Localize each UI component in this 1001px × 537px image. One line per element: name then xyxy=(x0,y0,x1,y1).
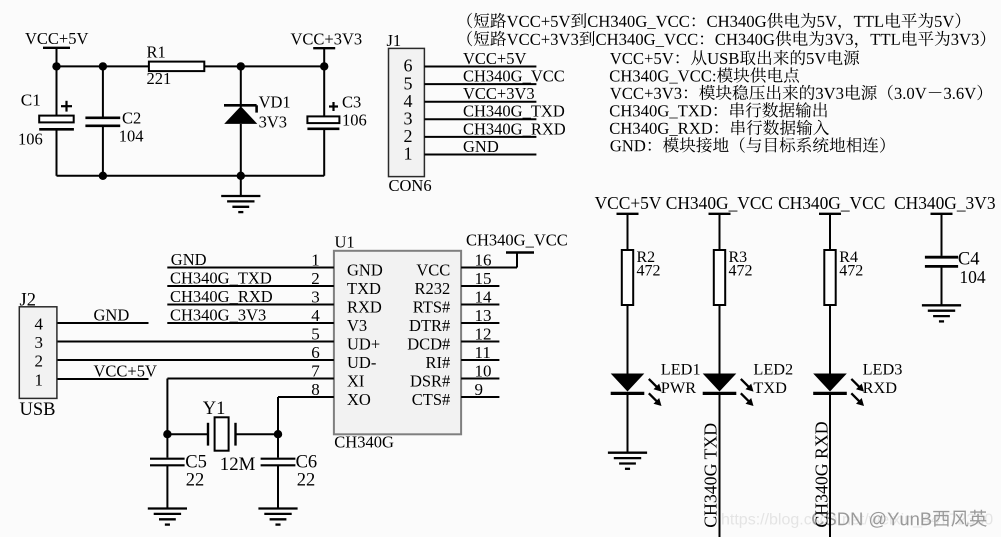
ground LED1 xyxy=(627,395,629,453)
svg-text:13: 13 xyxy=(475,306,492,325)
svg-text:CH340G: CH340G xyxy=(334,433,394,452)
U1 pin 2 TXD wire xyxy=(167,285,334,287)
U1 pin 9 CTS# wire xyxy=(461,396,499,398)
svg-text:TXD: TXD xyxy=(347,279,381,298)
svg-text:TXD: TXD xyxy=(753,378,787,397)
annotation line 4 xyxy=(610,67,799,83)
svg-text:22: 22 xyxy=(186,471,205,491)
svg-text:14: 14 xyxy=(475,287,493,306)
svg-text:4: 4 xyxy=(311,306,320,325)
annotation line 5 xyxy=(610,85,982,101)
svg-text:RTS#: RTS# xyxy=(413,297,451,316)
svg-text:12: 12 xyxy=(475,324,492,343)
svg-text:3V3: 3V3 xyxy=(259,112,287,131)
svg-text:22: 22 xyxy=(297,471,316,491)
wire R4 to LED3 xyxy=(829,305,831,374)
U1 pin 6 UD- wire xyxy=(58,359,334,361)
svg-text:12M: 12M xyxy=(220,454,256,475)
svg-text:XI: XI xyxy=(347,371,364,390)
svg-text:DTR#: DTR# xyxy=(409,316,450,335)
power symbol VCC+5V xyxy=(43,47,70,49)
svg-text:3: 3 xyxy=(35,333,44,352)
svg-text:LED3: LED3 xyxy=(863,359,903,378)
power symbol VCC+3V3 xyxy=(313,47,335,49)
svg-text:VCC+5V: VCC+5V xyxy=(463,49,526,68)
node junction dots bottom rail xyxy=(99,172,107,180)
power symbol (LED3 column) xyxy=(819,213,841,215)
wire XI down xyxy=(166,379,168,435)
svg-text:15: 15 xyxy=(475,269,492,288)
svg-text:VCC+3V3: VCC+3V3 xyxy=(463,84,535,103)
svg-text:R1: R1 xyxy=(147,43,166,62)
svg-text:6: 6 xyxy=(311,343,320,362)
svg-text:3: 3 xyxy=(311,288,320,307)
svg-text:CH340G_TXD: CH340G_TXD xyxy=(170,268,272,287)
svg-text:CH340G_RXD: CH340G_RXD xyxy=(170,287,273,306)
svg-text:106: 106 xyxy=(18,130,43,149)
ground C5 xyxy=(166,465,168,508)
U1 pin 10 DSR# wire xyxy=(461,378,499,380)
svg-text:PWR: PWR xyxy=(661,378,696,397)
svg-text:104: 104 xyxy=(119,127,144,146)
svg-text:RXD: RXD xyxy=(863,378,898,397)
U1 pin 7 XI wire xyxy=(167,378,334,380)
svg-text:CH340G_VCC: CH340G_VCC xyxy=(666,193,773,213)
LED LED2 TXD xyxy=(703,374,737,392)
svg-text:1: 1 xyxy=(311,251,320,270)
ground C4 xyxy=(941,266,943,305)
svg-text:VCC+5V: VCC+5V xyxy=(94,361,157,380)
svg-text:VD1: VD1 xyxy=(259,93,291,112)
U1 pin 1 GND wire xyxy=(167,267,334,269)
capacitor C5 xyxy=(166,434,168,457)
svg-text:CTS#: CTS# xyxy=(412,390,451,409)
capacitor C2 xyxy=(102,66,104,117)
resistor R3 472 xyxy=(714,250,725,305)
svg-text:U1: U1 xyxy=(335,232,355,251)
svg-text:472: 472 xyxy=(839,262,863,279)
wire LED3 down CH340G_RXD xyxy=(829,395,831,537)
svg-text:472: 472 xyxy=(637,262,661,279)
svg-text:R232: R232 xyxy=(415,279,451,298)
wire bottom rail xyxy=(57,175,325,177)
node junction XO/C6 xyxy=(274,430,282,438)
svg-text:DSR#: DSR# xyxy=(410,371,450,390)
annotation line 3 xyxy=(610,50,859,65)
svg-text:LED1: LED1 xyxy=(661,359,701,378)
annotation line 6 xyxy=(610,102,827,118)
U1 pin 4 V3 wire xyxy=(167,322,334,324)
node junction dots top rail xyxy=(52,62,60,70)
power symbol (LED2 column) xyxy=(709,213,731,215)
svg-text:USB: USB xyxy=(20,400,56,420)
svg-text:UD-: UD- xyxy=(347,353,376,372)
svg-text:CH340G_RXD: CH340G_RXD xyxy=(463,119,566,138)
svg-text:C3: C3 xyxy=(342,93,361,112)
U1 pin 11 RI# wire xyxy=(461,359,499,361)
svg-text:11: 11 xyxy=(475,343,491,362)
svg-text:5: 5 xyxy=(311,325,320,344)
svg-text:16: 16 xyxy=(475,250,492,269)
svg-text:2: 2 xyxy=(311,269,320,288)
svg-text:GND: GND xyxy=(463,137,499,156)
ground C6 xyxy=(277,465,279,508)
svg-text:1: 1 xyxy=(404,144,413,164)
svg-text:UD+: UD+ xyxy=(347,334,380,353)
J2 pin4 GND wire xyxy=(58,322,149,324)
capacitor C4 104 xyxy=(925,256,958,259)
wire R3 to LED2 xyxy=(719,305,721,374)
svg-text:CH340G_VCC: CH340G_VCC xyxy=(466,231,568,250)
resistor R2 472 xyxy=(622,250,633,305)
svg-text:CON6: CON6 xyxy=(389,176,432,195)
svg-text:CH340G_3V3: CH340G_3V3 xyxy=(894,193,996,213)
zener diode VD1 3V3 xyxy=(240,66,242,107)
svg-text:9: 9 xyxy=(475,380,484,399)
svg-text:10: 10 xyxy=(475,361,492,380)
svg-text:2: 2 xyxy=(35,352,44,371)
wire top rail right xyxy=(204,65,324,67)
U1 pin 8 XO wire xyxy=(278,396,334,398)
power symbol CH340G_VCC at U1 pin16 xyxy=(516,253,518,268)
annotation line 2 xyxy=(467,31,985,48)
power symbol (LED1 column) xyxy=(617,213,639,215)
svg-text:GND: GND xyxy=(171,250,207,269)
annotation line 1 xyxy=(467,13,960,30)
svg-text:GND: GND xyxy=(94,305,130,324)
svg-text:RXD: RXD xyxy=(347,297,382,316)
svg-text:7: 7 xyxy=(311,362,320,381)
capacitor C3 xyxy=(323,66,325,116)
svg-text:1: 1 xyxy=(35,371,44,390)
svg-text:106: 106 xyxy=(342,110,367,129)
svg-text:C2: C2 xyxy=(122,109,141,128)
power symbol CH340G_3V3 xyxy=(931,213,953,215)
U1 pin 14 RTS# wire xyxy=(461,304,499,306)
resistor R4 472 xyxy=(824,250,835,305)
capacitor C1 xyxy=(56,66,58,115)
svg-text:CH340G_TXD: CH340G_TXD xyxy=(463,102,565,121)
U1 pin 3 RXD wire xyxy=(167,304,334,306)
annotation line 8 xyxy=(611,137,885,153)
svg-text:CH340G TXD: CH340G TXD xyxy=(701,423,721,528)
wire crystal left xyxy=(167,433,208,435)
annotation line 7 xyxy=(610,120,829,136)
svg-text:472: 472 xyxy=(729,262,753,279)
U1 pin 13 DTR# wire xyxy=(461,322,499,324)
capacitor C6 xyxy=(277,434,279,457)
svg-text:CH340G_VCC: CH340G_VCC xyxy=(778,193,885,213)
LED LED3 RXD xyxy=(813,374,847,392)
resistor R1 xyxy=(149,62,204,72)
U1 pin 15 R232 wire xyxy=(461,285,499,287)
crystal Y1 12M xyxy=(207,423,209,446)
svg-text:CH340G_VCC: CH340G_VCC xyxy=(463,67,565,86)
svg-text:VCC+5V: VCC+5V xyxy=(25,29,88,48)
watermark CSDN @YunB西风英 xyxy=(812,510,987,528)
svg-text:V3: V3 xyxy=(347,316,367,335)
U1 pin 5 UD+ wire xyxy=(58,341,334,343)
svg-text:VCC+5V: VCC+5V xyxy=(595,193,662,213)
svg-text:J1: J1 xyxy=(387,31,402,50)
node junction XI/C5 xyxy=(163,430,171,438)
U1 pin 16 VCC wire xyxy=(461,267,517,269)
ground power section xyxy=(240,176,242,196)
svg-text:GND: GND xyxy=(347,260,383,279)
svg-text:104: 104 xyxy=(959,267,986,287)
svg-text:8: 8 xyxy=(311,380,320,399)
svg-text:C1: C1 xyxy=(21,91,41,110)
wire crystal right xyxy=(236,433,279,435)
wire LED1 to ground xyxy=(627,395,629,452)
svg-text:DCD#: DCD# xyxy=(407,334,450,353)
svg-text:RI#: RI# xyxy=(426,353,451,372)
svg-text:221: 221 xyxy=(147,69,172,88)
U1 pin 12 DCD# wire xyxy=(461,341,499,343)
wire LED2 down CH340G_TXD xyxy=(719,395,721,537)
svg-text:LED2: LED2 xyxy=(753,359,793,378)
wire XO down xyxy=(277,397,279,434)
svg-text:VCC: VCC xyxy=(416,260,450,279)
svg-text:VCC+3V3: VCC+3V3 xyxy=(291,30,363,49)
svg-text:Y1: Y1 xyxy=(203,399,226,419)
wire top rail left xyxy=(57,65,149,67)
svg-text:XO: XO xyxy=(347,390,371,409)
svg-text:CH340G_3V3: CH340G_3V3 xyxy=(170,305,266,324)
svg-text:CH340G RXD: CH340G RXD xyxy=(812,421,832,527)
svg-text:4: 4 xyxy=(35,315,44,334)
LED LED1 PWR xyxy=(611,374,645,392)
J2 pin1 VCC+5V wire xyxy=(58,378,149,380)
wire R2 to LED1 xyxy=(627,305,629,374)
